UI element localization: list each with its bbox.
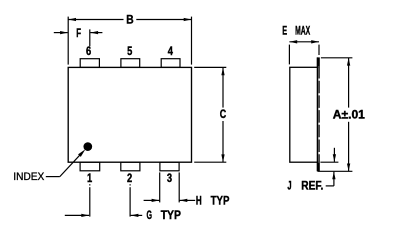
svg-text:TYP: TYP — [161, 208, 181, 222]
svg-text:MAX: MAX — [295, 24, 310, 38]
svg-text:G: G — [147, 208, 153, 222]
arrowhead B left — [68, 18, 76, 21]
dimension F arrow line left — [54, 32, 68, 34]
dimension F arrow line right — [90, 32, 102, 34]
pin 4 — [161, 59, 180, 68]
dimension C line — [222, 67, 224, 107]
svg-text:F: F — [76, 26, 81, 40]
svg-text:INDEX: INDEX — [13, 171, 44, 183]
arrowhead H right — [180, 199, 188, 202]
svg-text:3: 3 — [167, 171, 172, 185]
dimension G arrow line left — [65, 214, 89, 216]
arrowhead E left — [289, 40, 297, 43]
arrowhead F left — [60, 31, 68, 34]
svg-text:4: 4 — [168, 44, 173, 58]
package body top view — [68, 67, 191, 162]
package body side view — [290, 67, 318, 162]
body bottom extension line for J — [320, 161, 338, 163]
dimension F pin-6 centerline — [89, 29, 91, 46]
J REF leader line — [326, 185, 334, 187]
dimension E line — [289, 41, 319, 43]
dimension A extension line bottom — [318, 170, 353, 172]
arrowhead A top — [347, 58, 350, 66]
svg-text:A±.01: A±.01 — [333, 108, 365, 122]
dimension H extension line left — [159, 172, 161, 202]
dimension J arrow line top — [333, 148, 335, 162]
dimension C extension line top — [194, 66, 226, 68]
dimension A line — [348, 58, 350, 108]
pin 1 — [80, 162, 100, 171]
svg-text:B: B — [126, 13, 134, 27]
arrowhead A bottom — [347, 164, 350, 172]
svg-text:H: H — [196, 193, 202, 207]
arrowhead G right — [131, 214, 139, 217]
dimension B extension line right — [191, 17, 193, 65]
dimension E extension line right — [318, 45, 320, 55]
pin 1 centerline — [89, 184, 91, 185]
dimension E extension line left — [288, 45, 290, 65]
svg-text:5: 5 — [127, 44, 132, 58]
arrowhead B right — [184, 18, 192, 21]
pin 3 — [160, 162, 179, 171]
dimension J arrow line bottom — [333, 172, 335, 186]
index leader line — [46, 176, 60, 178]
index dot — [83, 142, 92, 151]
arrowhead F right — [90, 31, 98, 34]
dimension G arrow line right — [131, 214, 143, 216]
dimension B extension line left — [67, 17, 69, 65]
svg-text:C: C — [220, 107, 227, 121]
arrowhead C top — [221, 67, 224, 75]
arrowhead J bottom — [332, 172, 335, 180]
arrowhead J top — [333, 154, 336, 162]
arrowhead C bottom — [221, 154, 224, 162]
dimension H extension line right — [178, 172, 180, 202]
dimension B line — [68, 19, 123, 21]
dimension H arrow line right — [180, 199, 196, 201]
svg-text:E: E — [282, 24, 287, 38]
arrowhead index leader — [78, 148, 87, 157]
arrowhead G left — [81, 214, 89, 217]
lead side view — [317, 57, 318, 171]
svg-text:TYP: TYP — [211, 193, 230, 207]
svg-text:1: 1 — [87, 171, 92, 185]
arrowhead H left — [152, 199, 160, 202]
pin 6 — [80, 59, 99, 68]
svg-text:J: J — [287, 179, 291, 193]
dimension H arrow line left — [144, 199, 160, 201]
pin 5 — [121, 59, 140, 68]
pin 2 centerline — [129, 184, 131, 185]
pin 2 — [121, 162, 140, 171]
svg-text:2: 2 — [127, 171, 132, 185]
arrowhead E right — [311, 40, 319, 43]
svg-text:6: 6 — [86, 44, 91, 58]
svg-text:REF.: REF. — [301, 179, 323, 193]
dimension C extension line bottom — [194, 161, 226, 163]
dimension A extension line top — [321, 57, 353, 59]
